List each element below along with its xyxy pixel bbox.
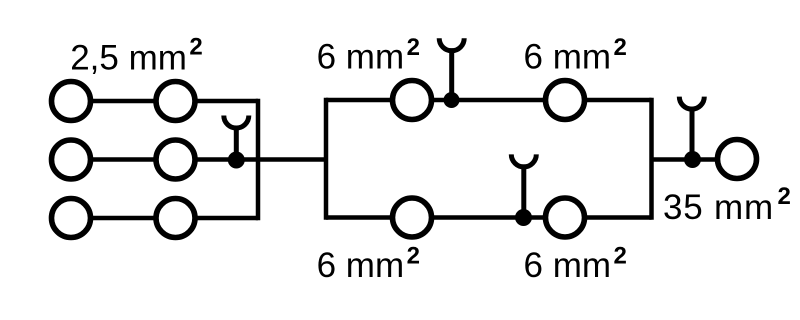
terminal circle output bbox=[718, 140, 757, 179]
terminal circle bottom branch right bbox=[546, 198, 585, 237]
svg-text:2,5 mm2: 2,5 mm2 bbox=[70, 33, 203, 77]
terminal circle row2 col1 bbox=[52, 140, 91, 179]
tap clamp output: cup bbox=[679, 97, 704, 110]
terminal circle bottom branch left bbox=[393, 198, 432, 237]
wire parallel-box right vertical bbox=[649, 98, 654, 220]
tap clamp bottom branch: junction dot bbox=[515, 209, 532, 226]
wire bottom branch bbox=[326, 215, 652, 220]
tap clamp top branch: junction dot bbox=[444, 92, 460, 108]
tap clamp output: stem bbox=[690, 107, 695, 160]
wire parallel-box left vertical bbox=[324, 98, 329, 220]
tap clamp output: junction dot bbox=[684, 151, 701, 168]
tap clamp bottom branch: cup bbox=[511, 154, 536, 167]
tap clamp top branch: cup bbox=[439, 38, 464, 51]
tap clamp bottom branch: stem bbox=[521, 164, 526, 217]
svg-text:6 mm2: 6 mm2 bbox=[317, 243, 420, 286]
svg-text:6 mm2: 6 mm2 bbox=[317, 34, 420, 77]
terminal circle row2 col2 bbox=[156, 140, 195, 179]
wire output bbox=[652, 157, 719, 162]
wire row2 trunk bbox=[71, 157, 326, 162]
tap clamp top branch: stem bbox=[449, 48, 454, 100]
terminal circle row3 col2 bbox=[156, 199, 195, 238]
tap clamp left: junction dot bbox=[228, 152, 245, 169]
tap clamp left: stem bbox=[234, 126, 239, 160]
wire left bus vertical bbox=[256, 99, 261, 221]
svg-text:35 mm2: 35 mm2 bbox=[663, 183, 792, 227]
wire row1 left group bbox=[71, 99, 258, 104]
svg-text:6 mm2: 6 mm2 bbox=[524, 243, 627, 286]
tap clamp left: cup bbox=[224, 116, 249, 129]
terminal circle row1 col2 bbox=[156, 82, 195, 121]
terminal circle top branch left bbox=[393, 81, 432, 120]
terminal circle row1 col1 bbox=[52, 82, 91, 121]
wire row3 left group bbox=[71, 216, 258, 221]
terminal circle top branch right bbox=[546, 81, 585, 120]
svg-text:6 mm2: 6 mm2 bbox=[524, 34, 627, 77]
wire top branch bbox=[326, 98, 652, 103]
terminal circle row3 col1 bbox=[52, 199, 91, 238]
